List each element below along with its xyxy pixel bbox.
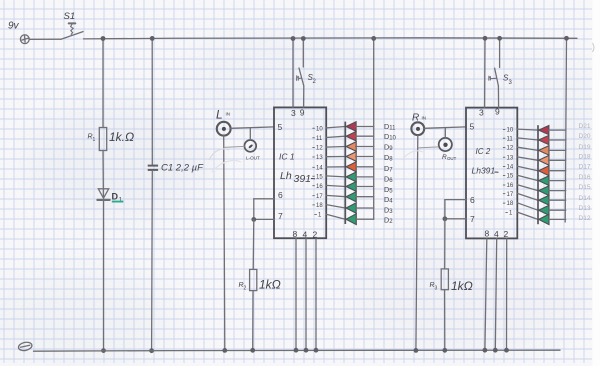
svg-text:D17: D17 bbox=[579, 163, 591, 170]
battery positive terminal 9V bbox=[20, 35, 29, 44]
wire IC2 pin 2 to bottom rail bbox=[506, 238, 508, 350]
LED D14 bbox=[539, 195, 549, 205]
svg-text:17: 17 bbox=[507, 192, 514, 198]
wire IC2 pin 8 to bottom rail bbox=[485, 238, 487, 350]
svg-text:C1 2,2 µF: C1 2,2 µF bbox=[161, 163, 204, 174]
svg-text:D20: D20 bbox=[579, 133, 591, 140]
svg-text:15: 15 bbox=[316, 174, 323, 180]
LED D3 bbox=[346, 203, 356, 213]
wire R3 to bottom rail bbox=[444, 290, 446, 350]
svg-text:1k.Ω: 1k.Ω bbox=[109, 130, 134, 144]
svg-text:D21: D21 bbox=[579, 123, 591, 130]
svg-text:L-OUT: L-OUT bbox=[246, 156, 260, 161]
svg-text:18: 18 bbox=[507, 201, 514, 207]
wire L_in to IC1 pin 5 bbox=[231, 127, 274, 128]
wire IC1 pin 4 to bottom rail bbox=[305, 238, 307, 350]
faint wire R_in vertical to R_out bbox=[418, 147, 439, 148]
wire IC2 pin7 left bbox=[445, 218, 466, 220]
wire LED anode bus IC1 to top rail bbox=[373, 39, 375, 220]
wire top rail to C1 bbox=[151, 39, 153, 165]
wire bracket down to R2 bbox=[252, 219, 255, 269]
svg-text:D: D bbox=[112, 192, 119, 202]
wire IC1 pin 2 to bottom rail bbox=[315, 238, 317, 350]
svg-text:5: 5 bbox=[278, 122, 283, 132]
svg-text:S1: S1 bbox=[64, 11, 76, 22]
top supply rail wire bbox=[84, 38, 578, 39]
diode D1 bbox=[97, 189, 109, 200]
junction pin7 bracket bbox=[251, 217, 256, 222]
svg-text:17: 17 bbox=[316, 194, 323, 200]
LED D6 bbox=[346, 172, 356, 182]
wire IC1 pin6 left bbox=[254, 198, 274, 200]
junction R2 bottom rail bbox=[250, 348, 255, 353]
svg-text:IC 1: IC 1 bbox=[279, 152, 295, 162]
svg-text:L: L bbox=[216, 108, 223, 122]
wire L_in down to bottom rail bbox=[224, 136, 225, 351]
wire bracket vertical IC2 bbox=[444, 200, 446, 219]
LED D20 bbox=[539, 135, 549, 144]
svg-text:3: 3 bbox=[479, 108, 484, 118]
LED D4 bbox=[346, 192, 356, 202]
wire R_out up bbox=[444, 128, 446, 138]
LED D2 bbox=[346, 214, 356, 225]
decorative bbox=[209, 149, 229, 160]
svg-text:13: 13 bbox=[316, 155, 323, 161]
IC2 right side pin numbers 10-18,1 bbox=[503, 128, 514, 217]
wire top rail to IC1 pin 3 bbox=[292, 39, 294, 108]
input jack L_in bbox=[217, 122, 231, 136]
svg-text:IN: IN bbox=[226, 112, 231, 117]
wire battery+ to switch S1 bbox=[29, 38, 61, 40]
svg-text:D16: D16 bbox=[579, 174, 591, 181]
svg-text:16: 16 bbox=[507, 183, 514, 189]
svg-text:12: 12 bbox=[507, 146, 514, 152]
resistor R3 bbox=[441, 269, 448, 290]
IC2 LED pin stub wires bbox=[517, 129, 538, 219]
LED D19 bbox=[539, 146, 549, 156]
IC1 right side pin numbers 10-18,1 bbox=[312, 126, 323, 218]
svg-text:1kΩ: 1kΩ bbox=[451, 279, 473, 293]
LED D12 bbox=[539, 214, 549, 224]
decorative bbox=[593, 43, 595, 52]
LED D10 bbox=[346, 132, 356, 141]
svg-text:D18: D18 bbox=[579, 154, 591, 161]
wire top rail to R1 bbox=[102, 39, 104, 128]
input jack R_in bbox=[411, 122, 424, 135]
LED labels D21-D12 (faint) bbox=[579, 123, 591, 222]
svg-text:11: 11 bbox=[316, 136, 323, 142]
switch S1 bbox=[61, 23, 83, 39]
resistor R1 bbox=[99, 128, 106, 151]
junction anode bus top rail bbox=[371, 36, 376, 41]
bottom rail wire bbox=[34, 350, 561, 351]
wire D1 to bottom rail bbox=[103, 200, 105, 351]
capacitor C1 bbox=[148, 165, 158, 171]
svg-text:391: 391 bbox=[294, 173, 312, 185]
svg-text:Lh: Lh bbox=[280, 170, 292, 182]
wire R2 to bottom rail bbox=[252, 291, 254, 351]
wire LED anode bus IC2 to top rail bbox=[565, 38, 566, 222]
LED D11 bbox=[346, 122, 356, 131]
LED D17 bbox=[539, 166, 549, 176]
svg-text:6: 6 bbox=[470, 195, 475, 205]
wire bracket down to R3 bbox=[444, 219, 446, 269]
LED cathode rail IC2 bbox=[537, 125, 539, 224]
svg-text:3: 3 bbox=[291, 108, 296, 118]
svg-text:OUT: OUT bbox=[447, 156, 457, 161]
wire L_out up to pin5 wire bbox=[249, 128, 251, 140]
svg-text:8: 8 bbox=[485, 229, 490, 239]
svg-text:D19: D19 bbox=[579, 144, 591, 151]
LED D15 bbox=[539, 186, 549, 196]
svg-text:D13: D13 bbox=[579, 205, 591, 212]
svg-text:2: 2 bbox=[313, 230, 318, 240]
wire S2 to IC1 pin 9 bbox=[303, 86, 305, 107]
svg-text:16: 16 bbox=[316, 184, 323, 190]
switch S3 bbox=[489, 68, 499, 86]
junction L_in bottom rail bbox=[222, 348, 227, 353]
wire IC2 pin6 left bbox=[445, 199, 466, 201]
wire C1 to bottom rail bbox=[151, 171, 154, 351]
svg-text:3: 3 bbox=[435, 286, 438, 292]
svg-text:18: 18 bbox=[316, 203, 323, 209]
svg-text:4: 4 bbox=[303, 230, 308, 240]
junction R3 bottom rail bbox=[442, 348, 447, 353]
svg-text:8: 8 bbox=[293, 229, 298, 239]
svg-text:1: 1 bbox=[93, 137, 96, 143]
svg-text:13: 13 bbox=[507, 155, 514, 161]
wire top rail to IC2 pin 3 bbox=[484, 38, 486, 107]
junction anode bus2 top rail bbox=[564, 36, 569, 41]
svg-text:9: 9 bbox=[300, 108, 305, 118]
junction top rail C1 bbox=[150, 36, 155, 41]
svg-text:14: 14 bbox=[316, 165, 323, 171]
wire IC2 pin 4 to bottom rail bbox=[495, 238, 496, 350]
LED D16 bbox=[539, 176, 549, 186]
LED D9 bbox=[346, 142, 356, 152]
svg-text:11: 11 bbox=[507, 136, 514, 142]
junction pin7 bracket IC2 bbox=[443, 216, 448, 221]
svg-text:5: 5 bbox=[470, 122, 475, 132]
svg-text:2: 2 bbox=[244, 286, 247, 292]
teal underline under D1 bbox=[112, 201, 124, 203]
faint wire L_in vertical to L_out bbox=[224, 146, 245, 147]
LED D21 bbox=[539, 126, 549, 135]
svg-text:9: 9 bbox=[495, 107, 500, 117]
LED D8 bbox=[346, 152, 356, 162]
driver IC2 box bbox=[466, 108, 517, 239]
svg-text:12: 12 bbox=[316, 146, 323, 152]
svg-text:IN: IN bbox=[422, 116, 427, 121]
wire bracket vertical pin6 to pin7 bbox=[253, 199, 255, 220]
svg-text:R: R bbox=[412, 113, 419, 124]
wire top rail to switch S3 bbox=[499, 38, 501, 67]
LED D18 bbox=[539, 155, 549, 165]
jack L_out bbox=[244, 140, 256, 152]
junction R_in bottom rail bbox=[414, 348, 419, 353]
jack R_out bbox=[439, 138, 452, 151]
svg-text:15: 15 bbox=[507, 174, 514, 180]
LED anode wires IC1 bbox=[356, 127, 374, 220]
svg-text:7: 7 bbox=[278, 211, 283, 221]
junction D1 branch bottom rail bbox=[101, 348, 106, 353]
op-amp / driver IC1 box bbox=[274, 107, 326, 238]
wire IC1 pin 8 to bottom rail bbox=[295, 238, 297, 350]
LED anode wires IC2 bbox=[548, 130, 565, 219]
svg-text:D12: D12 bbox=[579, 215, 591, 222]
switch S2 bbox=[297, 68, 304, 86]
resistor R2 bbox=[250, 269, 257, 290]
wire top rail to switch S2 bbox=[302, 39, 304, 67]
wire S3 to IC2 pin 9 bbox=[497, 86, 499, 108]
svg-text:1kΩ: 1kΩ bbox=[259, 278, 281, 292]
svg-text:14: 14 bbox=[507, 165, 514, 171]
svg-text:7: 7 bbox=[470, 214, 475, 224]
svg-text:D15: D15 bbox=[579, 184, 591, 191]
battery negative terminal bbox=[18, 341, 33, 352]
svg-text:10: 10 bbox=[316, 126, 323, 132]
junction C1 branch bottom rail bbox=[149, 348, 154, 353]
LED cathode rail IC1 bbox=[344, 122, 346, 224]
wire R_in down to bottom rail bbox=[416, 135, 418, 350]
LED labels D11-D2 bbox=[384, 122, 397, 225]
junction top rail R1 bbox=[101, 36, 106, 41]
LED D5 bbox=[346, 182, 356, 192]
svg-text:9v: 9v bbox=[8, 21, 20, 32]
svg-text:10: 10 bbox=[507, 128, 514, 134]
wire R1 to D1 bbox=[102, 151, 104, 198]
svg-text:4: 4 bbox=[494, 229, 499, 239]
IC1 LED pin stub wires bbox=[326, 127, 345, 220]
svg-text:IC 2: IC 2 bbox=[476, 147, 491, 156]
wire IC1 pin7 left bbox=[254, 218, 274, 220]
svg-text:2: 2 bbox=[504, 229, 509, 239]
svg-text:Lh391: Lh391 bbox=[472, 166, 496, 176]
wire R_in to IC2 pin 5 bbox=[424, 127, 466, 128]
LED D13 bbox=[539, 205, 549, 215]
LED D7 bbox=[346, 162, 356, 172]
svg-text:D14: D14 bbox=[579, 195, 591, 202]
svg-text:6: 6 bbox=[278, 190, 283, 200]
